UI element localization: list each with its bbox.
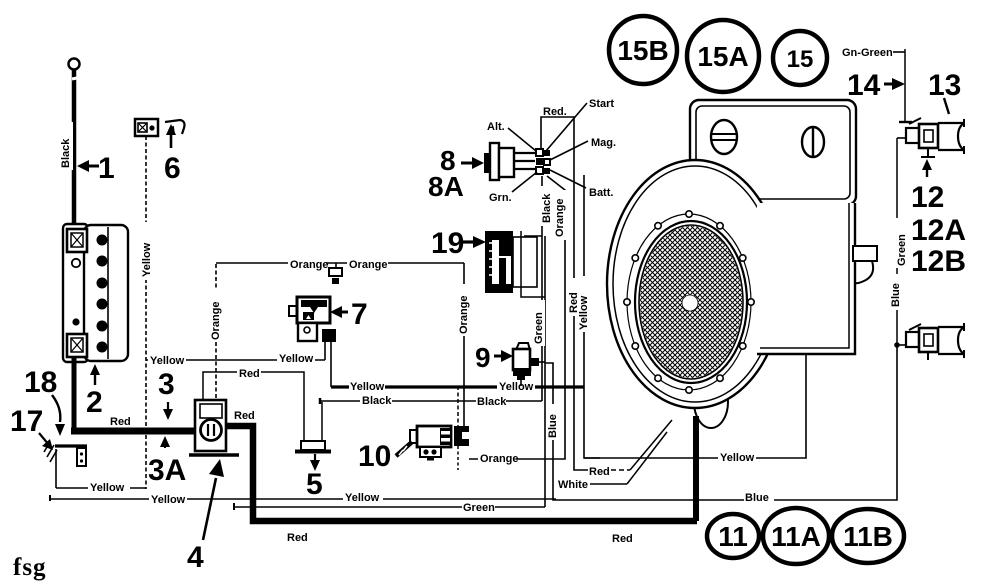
label Red on coil output xyxy=(232,409,256,422)
label Gn-Green top right xyxy=(842,47,905,59)
label 12 with arrow xyxy=(911,159,944,214)
terminal block 2 small dot xyxy=(72,318,79,325)
svg-text:Gn-Green: Gn-Green xyxy=(842,47,893,59)
terminal block 2 top lug xyxy=(67,229,87,252)
label 19 with arrow xyxy=(431,227,486,260)
labels green/blue rotated right side xyxy=(890,218,908,310)
svg-text:Black: Black xyxy=(362,395,392,407)
svg-text:Yellow: Yellow xyxy=(279,353,314,365)
headlight socket top (component 12/13) xyxy=(897,118,964,157)
screen bolts xyxy=(624,211,754,393)
engine ID circle 15B xyxy=(609,16,677,84)
wire: green bottom run (y=507) xyxy=(234,501,545,514)
svg-text:Yellow: Yellow xyxy=(720,452,755,464)
svg-text:Red: Red xyxy=(110,416,131,428)
label 14 with arrow xyxy=(847,69,905,102)
wire: red loop from ignition over to bundle xyxy=(541,117,574,462)
label 7 with arrow xyxy=(330,298,368,331)
svg-text:3: 3 xyxy=(158,368,175,401)
svg-text:2: 2 xyxy=(86,386,103,419)
svg-text:10: 10 xyxy=(358,440,391,473)
svg-text:Blue: Blue xyxy=(745,492,769,504)
wire: thick engine ground lead down xyxy=(693,416,699,521)
svg-text:Black: Black xyxy=(541,193,553,223)
wire: red bundle jog to engine diagonal xyxy=(568,278,630,478)
label 1 with arrow xyxy=(77,152,115,185)
PTO switch (component 7) xyxy=(289,297,330,341)
svg-text:5: 5 xyxy=(306,468,323,501)
svg-text:17: 17 xyxy=(10,405,43,438)
connector 19 bracket wires xyxy=(521,231,545,297)
ignition switch (component 8) side view xyxy=(484,143,535,180)
svg-text:Alt.: Alt. xyxy=(487,121,505,133)
svg-text:11A: 11A xyxy=(771,521,821,552)
svg-text:Orange: Orange xyxy=(480,453,519,465)
svg-text:1: 1 xyxy=(98,152,115,185)
ignition terminal label Grn. xyxy=(489,172,537,204)
wire: white label line xyxy=(558,479,627,491)
label 3 with arrow xyxy=(158,368,175,420)
ignition terminal label Batt. xyxy=(550,170,613,199)
engine ID circle 15A xyxy=(687,20,759,92)
engine blower housing (big circle) xyxy=(607,160,783,408)
wire: thick red from block 2 to solenoid 3 (bus bar) xyxy=(71,356,196,431)
headlight socket bottom (component 12B) xyxy=(894,323,964,360)
svg-text:12: 12 xyxy=(911,181,944,214)
svg-text:Yellow: Yellow xyxy=(345,492,380,504)
wire: yellow thick from switch 7 to bundle (y=387) xyxy=(331,342,584,393)
svg-text:15: 15 xyxy=(787,46,814,73)
svg-text:Black: Black xyxy=(60,138,72,168)
interlock switch (component 9) xyxy=(513,343,545,386)
wire: orange top run (coil 3 to connector block) xyxy=(216,257,464,271)
svg-text:9: 9 xyxy=(475,342,491,373)
wire: white diagonal into engine xyxy=(627,432,667,484)
connector block (component 19) xyxy=(485,231,537,293)
svg-text:Red: Red xyxy=(612,533,633,545)
relay 10 right connector xyxy=(454,386,469,470)
svg-text:7: 7 xyxy=(351,298,368,331)
engine mounting foot bump xyxy=(694,376,728,428)
svg-text:4: 4 xyxy=(187,541,204,574)
svg-text:Yellow: Yellow xyxy=(350,381,385,393)
fuel cap right xyxy=(802,127,824,157)
svg-text:14: 14 xyxy=(847,69,881,102)
svg-text:White: White xyxy=(558,479,588,491)
svg-text:Yellow: Yellow xyxy=(151,494,186,506)
wire: black from condenser 5 to bundle (y=401) xyxy=(320,394,542,408)
label 17 with arrow xyxy=(10,405,53,450)
fuse holder 6 wire hook xyxy=(165,120,185,134)
wire: green vertical to top headlight xyxy=(904,49,906,122)
svg-text:19: 19 xyxy=(431,227,464,260)
svg-text:15B: 15B xyxy=(617,35,668,66)
ground bar under coil 3 xyxy=(189,453,239,457)
svg-text:Orange: Orange xyxy=(349,259,388,271)
label 3A with arrow xyxy=(148,436,186,487)
label 8 / 8A with arrow xyxy=(428,145,484,202)
svg-text:Black: Black xyxy=(477,396,507,408)
svg-text:Red: Red xyxy=(589,466,610,478)
ground bracket (component 17) xyxy=(44,442,87,466)
wire: yellow bundle vertical xyxy=(578,175,600,458)
ID circle 11 xyxy=(707,514,759,558)
svg-text:11B: 11B xyxy=(843,521,893,552)
wire: red diagonal into engine xyxy=(630,420,672,470)
label 10 with hatched arrow xyxy=(358,440,412,473)
svg-text:6: 6 xyxy=(164,152,181,185)
wire: black battery cable (component 1) xyxy=(60,69,77,232)
relay module (component 10) xyxy=(410,426,451,461)
svg-text:13: 13 xyxy=(928,69,961,102)
terminal block 2 small circle xyxy=(72,259,80,267)
terminal block 2 screw dots xyxy=(97,235,108,353)
ignition terminal label Red. xyxy=(543,106,567,118)
flywheel screen bolt ring xyxy=(627,214,751,390)
terminal block 2 right housing xyxy=(84,225,128,361)
svg-text:Green: Green xyxy=(896,234,908,266)
label 13 with pointer xyxy=(928,69,961,114)
wire: orange vertical to coil 3 top xyxy=(210,264,222,400)
svg-text:Yellow: Yellow xyxy=(150,355,185,367)
flywheel screen (hatched oval) xyxy=(635,221,747,383)
terminal block 2 bottom lug xyxy=(67,334,87,357)
wire: yellow from fuse 6 down (dashed vertical) xyxy=(140,136,153,489)
svg-text:Green: Green xyxy=(533,312,545,344)
label 6 with arrow xyxy=(164,124,181,185)
ID circle 11A xyxy=(763,508,829,564)
svg-text:Yellow: Yellow xyxy=(499,381,534,393)
svg-text:Mag.: Mag. xyxy=(591,137,616,149)
label 4 with long arrow xyxy=(187,459,224,574)
label 18 with curved arrow xyxy=(24,366,65,436)
svg-text:18: 18 xyxy=(24,366,57,399)
label 5 with arrow xyxy=(306,454,323,501)
wire: yellow from bracket 17 xyxy=(56,449,146,494)
wire: black bundle vertical xyxy=(541,176,553,401)
wire: green bundle vertical down to green run xyxy=(533,236,545,507)
svg-text:Red: Red xyxy=(287,532,308,544)
svg-text:fsg: fsg xyxy=(13,554,47,581)
wire: blue branch down and long run right xyxy=(545,345,897,504)
ID circle 11B xyxy=(832,509,904,563)
svg-text:Blue: Blue xyxy=(890,283,902,307)
svg-text:Blue: Blue xyxy=(547,414,559,438)
svg-text:Orange: Orange xyxy=(554,198,566,237)
ignition terminal label Alt. xyxy=(487,121,536,151)
wire: thick red from coil 3 to bottom run xyxy=(226,426,697,545)
svg-text:Orange: Orange xyxy=(290,259,329,271)
svg-text:Yellow: Yellow xyxy=(90,482,125,494)
svg-text:Orange: Orange xyxy=(210,301,222,340)
coil / solenoid (component 3) xyxy=(195,400,226,451)
small pigtail connector on orange wire xyxy=(329,263,342,284)
engine right body block xyxy=(757,203,855,354)
wire: orange bundle vertical to relay 10 xyxy=(469,176,566,465)
ignition terminal label Start xyxy=(546,98,614,151)
wire: vertical between headlight sockets xyxy=(896,138,898,345)
svg-text:Start: Start xyxy=(589,98,614,110)
wire: long yellow bottom left (y=499) xyxy=(50,490,556,506)
ignition terminal label Mag. xyxy=(550,137,616,160)
label 9 with arrow xyxy=(475,342,513,373)
wire: red from coil 3 top to condenser 5 xyxy=(203,367,304,442)
svg-text:3A: 3A xyxy=(148,454,186,487)
label 2 with arrow xyxy=(86,364,103,419)
svg-text:12A: 12A xyxy=(911,214,966,247)
fuse holder (component 6) xyxy=(135,119,158,136)
switch 7 pigtail connector xyxy=(322,329,336,342)
svg-text:Batt.: Batt. xyxy=(589,187,613,199)
svg-text:12B: 12B xyxy=(911,245,966,278)
engine ID circle 15 xyxy=(773,31,827,85)
svg-text:15A: 15A xyxy=(697,41,748,72)
wire: orange vertical down to relay 10 xyxy=(458,263,470,427)
battery cable terminal eyelet xyxy=(69,59,80,70)
engine fuel tank (top box) xyxy=(690,100,856,205)
svg-text:Orange: Orange xyxy=(458,295,470,334)
svg-text:Green: Green xyxy=(463,502,495,514)
engine side bracket xyxy=(853,246,877,283)
svg-text:Red: Red xyxy=(234,410,255,422)
svg-text:Yellow: Yellow xyxy=(141,242,153,277)
svg-text:Grn.: Grn. xyxy=(489,192,512,204)
wire: yellow run under engine to right (y=458) xyxy=(584,354,806,464)
svg-text:Red: Red xyxy=(239,368,260,380)
wire: yellow from switch 7 to fuse vertical (y=360) xyxy=(146,342,325,367)
svg-text:11: 11 xyxy=(718,521,748,552)
svg-text:Yellow: Yellow xyxy=(578,295,590,330)
terminal block (component 2) left housing xyxy=(63,224,88,362)
ignition switch terminal node cluster xyxy=(536,149,550,174)
condenser (component 5) xyxy=(295,402,331,452)
svg-text:8A: 8A xyxy=(428,171,464,202)
fuel cap left xyxy=(711,120,737,154)
